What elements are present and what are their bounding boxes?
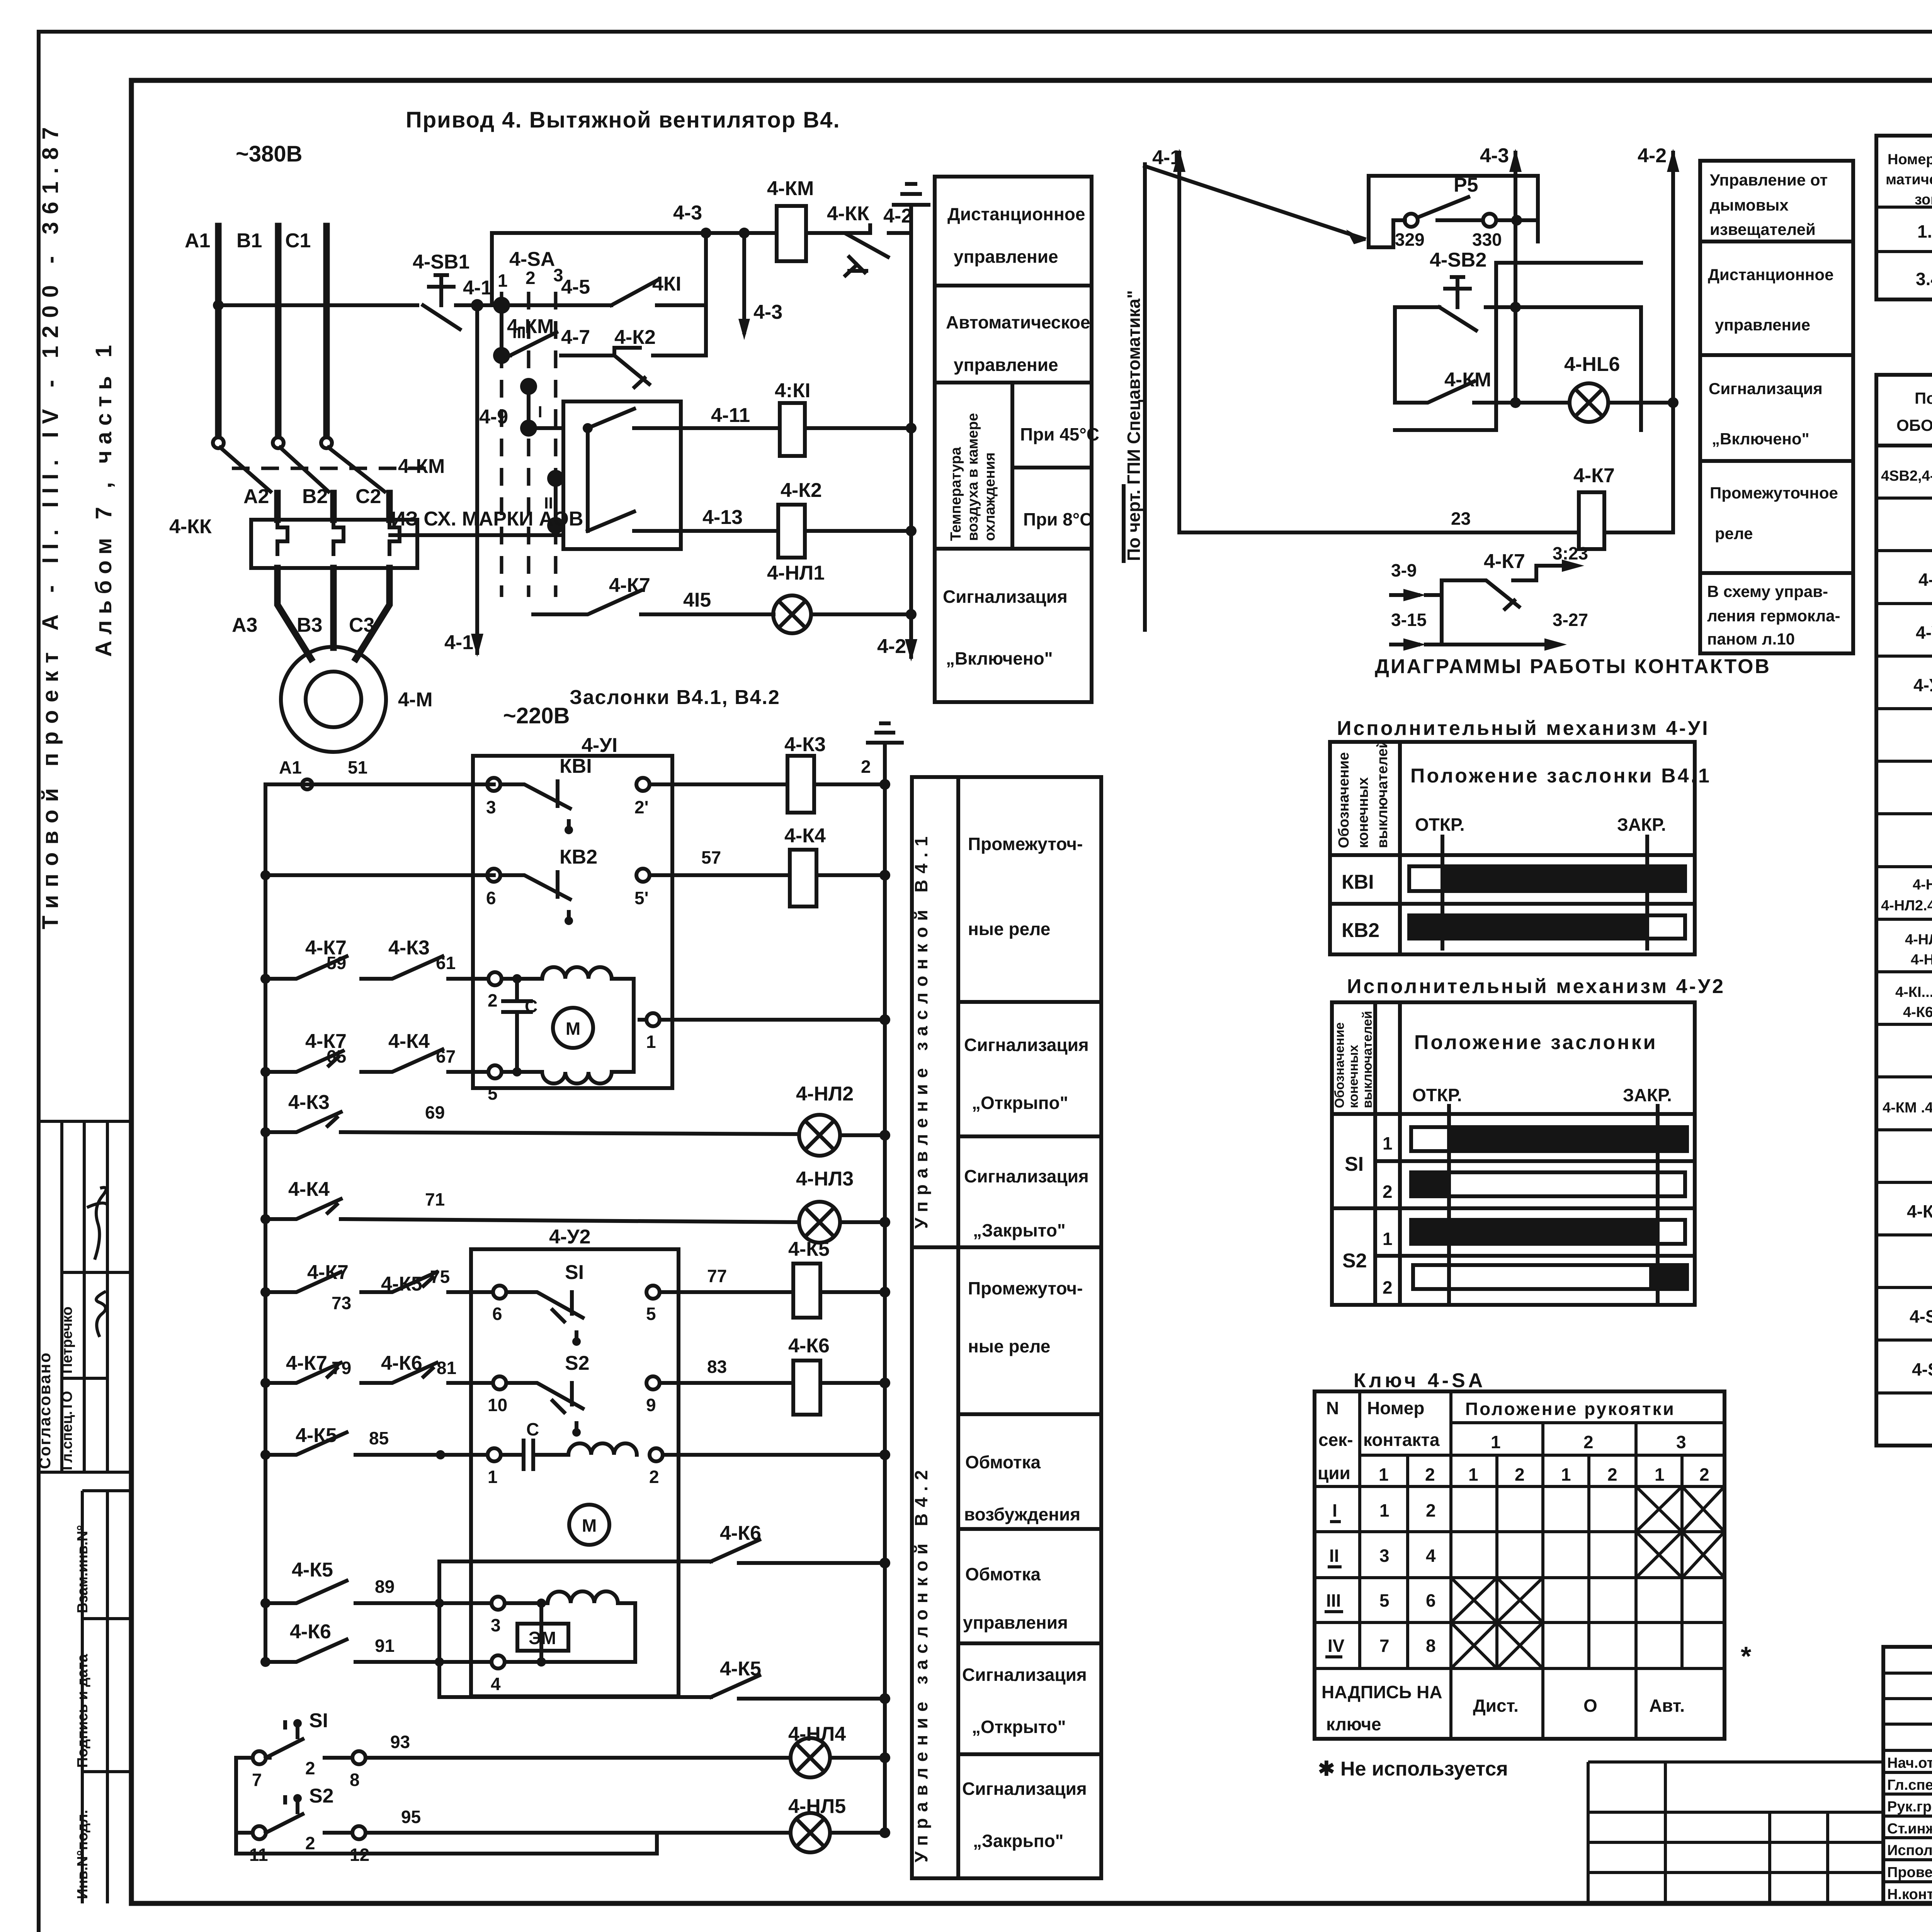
phase C1 wire <box>323 226 330 436</box>
svg-text:4-1: 4-1 <box>444 631 473 654</box>
lamp 4-HL5 <box>791 1813 830 1852</box>
svg-text:*: * <box>1741 1641 1752 1671</box>
svg-text:Положение заслонки: Положение заслонки <box>1414 1031 1658 1054</box>
AOB contact 1 <box>583 423 593 433</box>
svg-text:Сигнализация: Сигнализация <box>1709 379 1823 398</box>
svg-text:А2: А2 <box>243 485 269 508</box>
svg-text:Н.контр.: Н.контр. <box>1887 1886 1932 1903</box>
svg-text:5': 5' <box>634 888 649 908</box>
wire jog up to KM row <box>492 233 777 305</box>
svg-text:КВI: КВI <box>560 755 592 777</box>
svg-text:4-11: 4-11 <box>711 404 750 427</box>
svg-text:Гл.спец.ТО: Гл.спец.ТО <box>59 1391 75 1470</box>
svg-text:Исполнительный механизм 4-У2: Исполнительный механизм 4-У2 <box>1347 975 1725 998</box>
svg-text:67: 67 <box>436 1046 456 1066</box>
wire KK to bus <box>889 231 911 235</box>
row 59-61 <box>260 974 270 984</box>
svg-text:управления: управления <box>963 1612 1068 1633</box>
svg-text:9: 9 <box>646 1395 656 1415</box>
svg-text:Исполн.: Исполн. <box>1887 1842 1932 1859</box>
svg-text:4-Н45: 4-Н45 <box>1911 952 1932 968</box>
svg-text:Взам.инв.N°: Взам.инв.N° <box>75 1525 91 1613</box>
disconnect switch pole C <box>321 437 332 448</box>
svg-text:~380В: ~380В <box>236 141 303 167</box>
X marks row III pos1 <box>1451 1578 1543 1622</box>
svg-text:1: 1 <box>1383 1133 1393 1153</box>
svg-text:4-К4: 4-К4 <box>388 1030 430 1053</box>
svg-text:М: М <box>582 1515 597 1536</box>
svg-text:1: 1 <box>1561 1464 1571 1485</box>
box 4-U2 <box>471 1249 679 1696</box>
svg-text:зоны: зоны <box>1915 192 1932 208</box>
svg-text:выключателей: выключателей <box>1374 739 1391 848</box>
svg-text:3: 3 <box>491 1615 501 1635</box>
svg-text:Исполнительный механизм 4-У: Исполнительный механизм 4-УI <box>1337 717 1710 740</box>
svg-text:4-9: 4-9 <box>479 406 508 428</box>
svg-text:С: С <box>525 996 537 1016</box>
svg-text:В схему управ-: В схему управ- <box>1707 582 1828 600</box>
wire SB1 row <box>218 303 417 307</box>
svg-text:4-КМ .4-КК: 4-КМ .4-КК <box>1883 1100 1932 1116</box>
U1 output to bus <box>632 979 636 1020</box>
svg-text:4-1: 4-1 <box>463 277 492 299</box>
row 4-7 KM contact <box>502 354 510 357</box>
lamp 4-HL1 <box>773 595 811 633</box>
svg-text:4-КК: 4-КК <box>169 515 212 538</box>
KV2 limit switch <box>487 869 500 882</box>
svg-text:Согласовано: Согласовано <box>36 1352 54 1469</box>
svg-text:С: С <box>526 1419 539 1439</box>
svg-text:2: 2 <box>305 1758 315 1778</box>
box 4-U1 <box>473 756 672 1088</box>
svg-text:2: 2 <box>649 1467 659 1487</box>
table Перечень элементов frame <box>1876 375 1932 1446</box>
svg-text:2: 2 <box>1383 1277 1393 1298</box>
svg-text:Провер.: Провер. <box>1887 1864 1932 1881</box>
row 85 capacitor <box>260 1450 270 1460</box>
svg-text:8: 8 <box>1426 1636 1436 1656</box>
svg-text:73: 73 <box>332 1293 351 1313</box>
svg-text:75: 75 <box>430 1267 450 1287</box>
X marks row I pos3 <box>1636 1486 1725 1532</box>
svg-text:„Открыпо": „Открыпо" <box>972 1093 1068 1113</box>
svg-text:4-2: 4-2 <box>883 205 912 227</box>
svg-text:Температура: Температура <box>948 447 964 541</box>
svg-text:ления гермокла-: ления гермокла- <box>1707 607 1840 625</box>
svg-text:4-13: 4-13 <box>702 506 743 529</box>
svg-text:I: I <box>538 403 543 421</box>
svg-text:1: 1 <box>646 1032 656 1052</box>
svg-text:По черт. ГПИ Спецавтоматика": По черт. ГПИ Спецавтоматика" <box>1124 290 1144 561</box>
svg-text:Авт.: Авт. <box>1649 1696 1685 1716</box>
EM winding <box>541 1591 635 1662</box>
П5 contact row <box>1393 220 1405 247</box>
svg-text:НАДПИСЬ НА: НАДПИСЬ НА <box>1321 1682 1442 1702</box>
disconnect switch pole A <box>213 437 224 448</box>
svg-text:Обозначение: Обозначение <box>1336 752 1352 848</box>
svg-text:85: 85 <box>369 1428 389 1448</box>
svg-text:4-НЛ3: 4-НЛ3 <box>796 1168 854 1190</box>
SA contact section III <box>493 297 510 314</box>
svg-text:4:КI: 4:КI <box>775 379 810 402</box>
svg-text:4-НL6: 4-НL6 <box>1564 353 1620 376</box>
svg-text:3-9: 3-9 <box>1391 560 1417 580</box>
svg-text:Рук.гр.: Рук.гр. <box>1887 1799 1932 1815</box>
row 89 EM top <box>260 1598 270 1608</box>
svg-text:I: I <box>1332 1500 1337 1520</box>
svg-text:Обмотка: Обмотка <box>965 1564 1041 1584</box>
svg-text:Сигнализация: Сигнализация <box>964 1035 1089 1055</box>
svg-text:4-КМ: 4-КМ <box>507 315 554 338</box>
svg-text:ОТКР.: ОТКР. <box>1415 815 1465 835</box>
svg-text:возбуждения: возбуждения <box>964 1504 1080 1524</box>
svg-text:Управление заслонкой В4.2: Управление заслонкой В4.2 <box>911 1464 931 1862</box>
SA contact section II <box>547 470 564 487</box>
svg-text:4-НЛ2: 4-НЛ2 <box>796 1083 854 1105</box>
svg-text:выключателей: выключателей <box>1360 1011 1375 1108</box>
svg-text:Промежуточ-: Промежуточ- <box>968 1278 1083 1298</box>
svg-text:2: 2 <box>305 1833 315 1853</box>
coil 4-K1 <box>780 403 805 456</box>
svg-text:4-КМ: 4-КМ <box>767 177 814 200</box>
svg-text:4-К6: 4-К6 <box>290 1621 331 1643</box>
svg-text:4I5: 4I5 <box>683 589 711 611</box>
svg-text:91: 91 <box>375 1636 395 1656</box>
row 91 EM bottom <box>260 1657 270 1667</box>
svg-text:51: 51 <box>348 757 367 777</box>
wire lamp to 4-2 rail <box>1608 401 1673 405</box>
svg-text:Нач.отд.: Нач.отд. <box>1887 1755 1932 1771</box>
svg-text:✱ Не используется: ✱ Не используется <box>1318 1758 1508 1780</box>
svg-text:ные реле: ные реле <box>968 1336 1050 1356</box>
svg-text:5: 5 <box>488 1083 498 1104</box>
row contact 4-K5 to bus <box>439 1695 711 1699</box>
stator winding U1 bottom <box>542 1020 634 1083</box>
S2 switch row 95 <box>236 1831 253 1835</box>
svg-text:Гл.спец.: Гл.спец. <box>1887 1777 1932 1793</box>
svg-text:4-У2: 4-У2 <box>549 1226 591 1248</box>
svg-text:4-К6: 4-К6 <box>1903 1004 1932 1020</box>
svg-text:„Открыто": „Открыто" <box>972 1717 1066 1737</box>
svg-text:О: О <box>1583 1696 1597 1716</box>
table Выбор аппаратов frame <box>1876 136 1932 299</box>
svg-text:4-М: 4-М <box>1918 570 1932 590</box>
svg-text:1: 1 <box>1491 1432 1501 1452</box>
svg-text:Инв.N°подл.: Инв.N°подл. <box>75 1810 91 1899</box>
KV1 limit switch <box>487 778 500 791</box>
svg-text:Сигнализация: Сигнализация <box>962 1665 1087 1685</box>
svg-text:4-К2: 4-К2 <box>781 479 822 502</box>
svg-text:4-КМ: 4-КМ <box>1444 369 1491 391</box>
svg-text:Обмотка: Обмотка <box>965 1452 1041 1472</box>
svg-text:7: 7 <box>1379 1636 1389 1656</box>
svg-text:61: 61 <box>436 953 456 973</box>
label column 1 box <box>935 177 1092 702</box>
svg-text:4-К7: 4-К7 <box>1484 550 1525 573</box>
svg-text:SI: SI <box>565 1261 584 1284</box>
svg-text:S2: S2 <box>1342 1250 1367 1272</box>
svg-text:4-НЛ1: 4-НЛ1 <box>767 562 825 584</box>
disconnect switch pole B <box>273 437 284 448</box>
bar S1-2 <box>1411 1172 1685 1196</box>
row 71 lamp 4-HL3 <box>260 1214 270 1224</box>
svg-text:4-НЛ3,: 4-НЛ3, <box>1905 932 1932 948</box>
svg-text:4-К5: 4-К5 <box>292 1559 333 1581</box>
svg-text:2: 2 <box>1607 1464 1617 1485</box>
svg-text:6: 6 <box>1426 1590 1436 1611</box>
svg-text:3-15: 3-15 <box>1391 610 1427 630</box>
svg-text:2: 2 <box>1426 1500 1436 1520</box>
svg-text:При 45°С: При 45°С <box>1020 424 1099 444</box>
svg-text:7: 7 <box>252 1770 262 1790</box>
svg-text:1: 1 <box>1383 1229 1393 1249</box>
svg-text:Подпись и дата: Подпись и дата <box>75 1654 91 1768</box>
svg-text:Дистанционное: Дистанционное <box>1708 265 1833 284</box>
svg-text:6: 6 <box>486 888 496 908</box>
svg-text:В3: В3 <box>297 614 322 636</box>
svg-text:дымовых: дымовых <box>1710 196 1789 214</box>
svg-text:Управление заслонкой В4.1: Управление заслонкой В4.1 <box>911 830 931 1229</box>
svg-text:управление: управление <box>954 355 1058 375</box>
svg-text:1: 1 <box>498 270 508 291</box>
svg-text:10: 10 <box>488 1395 507 1415</box>
svg-text:ные реле: ные реле <box>968 919 1050 939</box>
row lines <box>1876 497 1932 500</box>
node 4-1 <box>471 299 483 311</box>
svg-text:реле: реле <box>1715 524 1753 543</box>
row 4-9 <box>529 426 563 430</box>
svg-text:Типовой проект А - II. III. I: Типовой проект А - II. III. IV - 1200 - … <box>38 119 63 929</box>
svg-text:КВ2: КВ2 <box>560 846 597 868</box>
AOB link vertical <box>586 428 590 531</box>
bar S2-1 <box>1411 1220 1685 1244</box>
svg-text:4-К5: 4-К5 <box>296 1424 337 1447</box>
svg-text:В2: В2 <box>302 485 328 508</box>
coil 4-K7 <box>1579 492 1604 549</box>
svg-text:4-К4: 4-К4 <box>784 825 826 847</box>
svg-text:2': 2' <box>634 797 649 817</box>
row 4-15 lamp 4-HL1 <box>533 590 641 614</box>
svg-text:71: 71 <box>425 1189 445 1209</box>
svg-text:4SB2,4-HL6: 4SB2,4-HL6 <box>1881 468 1932 484</box>
svg-text:8: 8 <box>350 1770 360 1790</box>
svg-text:57: 57 <box>701 847 721 867</box>
svg-text:ЭМ: ЭМ <box>529 1628 556 1648</box>
svg-text:5: 5 <box>646 1304 656 1324</box>
SA dashed column 2 <box>527 292 531 597</box>
svg-text:М: М <box>566 1019 580 1039</box>
svg-text:4-КК: 4-КК <box>827 202 869 225</box>
break contact 4-KK <box>806 225 888 276</box>
EM solenoid box <box>539 1603 543 1662</box>
phase B2 wire <box>330 493 337 520</box>
vertical link at 1827 <box>704 233 708 355</box>
row 4-5 with contact 4K1 <box>502 303 611 307</box>
inner loop box <box>1515 307 1641 430</box>
wire to node 4-1 <box>456 303 502 307</box>
svg-text:S2: S2 <box>565 1352 590 1374</box>
svg-text:Промежуточное: Промежуточное <box>1710 484 1838 502</box>
row 73-75 S1 77 <box>260 1287 270 1297</box>
svg-text:Ключ 4-SA: Ключ 4-SA <box>1354 1369 1486 1392</box>
phase A2 wire <box>274 493 281 520</box>
svg-text:ЗАКР.: ЗАКР. <box>1623 1085 1672 1105</box>
svg-text:2: 2 <box>488 990 498 1010</box>
X marks row II pos3 <box>1636 1532 1725 1578</box>
phase A3 wire to motor <box>277 568 311 659</box>
svg-text:4-2: 4-2 <box>877 635 906 658</box>
svg-text:~220В: ~220В <box>503 703 570 728</box>
svg-text:4-К5: 4-К5 <box>788 1238 830 1260</box>
key table frame <box>1315 1391 1725 1739</box>
row 65-67 <box>260 1067 270 1077</box>
svg-text:6: 6 <box>492 1304 502 1324</box>
svg-text:управление: управление <box>1715 316 1810 334</box>
svg-text:4-2: 4-2 <box>1638 145 1667 167</box>
ground symbol <box>894 184 929 218</box>
svg-text:IV: IV <box>1328 1636 1345 1656</box>
svg-text:Автоматическое: Автоматическое <box>946 312 1090 332</box>
svg-text:4-К7: 4-К7 <box>609 574 650 597</box>
svg-text:Поз.: Поз. <box>1915 389 1932 407</box>
label column 3 box <box>912 777 1101 1878</box>
svg-text:4-КI...: 4-КI... <box>1895 984 1932 1000</box>
svg-text:4-НЛ2.4-НЛ4: 4-НЛ2.4-НЛ4 <box>1881 898 1932 914</box>
row 69 lamp 4-HL2 <box>260 1127 270 1137</box>
svg-text:Дистанционное: Дистанционное <box>947 204 1085 224</box>
svg-text:извещателей: извещателей <box>1710 220 1816 238</box>
motor M of U2 <box>569 1505 609 1545</box>
row 51 wire <box>265 782 494 786</box>
svg-text:Петречко: Петречко <box>59 1306 75 1374</box>
svg-text:3-27: 3-27 <box>1553 610 1588 630</box>
switch linkage dashed <box>232 467 433 470</box>
svg-text:„Включено": „Включено" <box>946 648 1053 668</box>
svg-text:Альбом 7 , часть 1: Альбом 7 , часть 1 <box>91 339 116 657</box>
diagonal wire to П5 box <box>1145 166 1364 239</box>
ground at bus top <box>868 723 902 753</box>
svg-text:4-3: 4-3 <box>753 301 782 323</box>
svg-text:4-SA: 4-SA <box>509 248 555 270</box>
svg-text:II: II <box>1329 1546 1339 1566</box>
svg-text:ОТКР.: ОТКР. <box>1412 1085 1462 1105</box>
svg-text:Сигнализация: Сигнализация <box>964 1166 1089 1186</box>
svg-text:контакта: контакта <box>1363 1430 1440 1450</box>
label column 2 box <box>1700 161 1853 653</box>
phase B1 wire <box>275 226 282 436</box>
svg-text:4-SB1: 4-SB1 <box>1912 1359 1932 1379</box>
wire SB2 row <box>1395 305 1439 309</box>
diagram box 4-U1 <box>1330 742 1695 954</box>
phase A1 wire <box>215 226 222 436</box>
node on phase A <box>213 300 224 311</box>
svg-text:SI: SI <box>309 1709 328 1732</box>
svg-text:ИЗ СХ. МАРКИ АОВ: ИЗ СХ. МАРКИ АОВ <box>391 508 583 530</box>
svg-text:Положение заслонки В4.1: Положение заслонки В4.1 <box>1410 765 1711 787</box>
svg-text:А1: А1 <box>279 757 302 777</box>
wire to lamp <box>1474 401 1570 405</box>
svg-text:4: 4 <box>1426 1546 1436 1566</box>
bar KV1 <box>1409 866 1685 891</box>
svg-text:ОБОЗН.: ОБОЗН. <box>1896 416 1932 434</box>
svg-text:3: 3 <box>1676 1432 1686 1452</box>
svg-text:Промежуточ-: Промежуточ- <box>968 834 1083 854</box>
thermal elements through box <box>277 520 400 554</box>
svg-text:КВI: КВI <box>1342 871 1374 893</box>
right bus <box>883 753 887 1833</box>
lamp 4-HL6 <box>1570 383 1608 422</box>
svg-text:329: 329 <box>1395 230 1425 250</box>
svg-text:59: 59 <box>327 953 346 973</box>
title block left strip <box>1588 1760 1883 1764</box>
bar KV2 <box>1409 915 1685 939</box>
row 23 with coil 4-K7 <box>1179 531 1579 534</box>
svg-text:Ст.инж.: Ст.инж. <box>1887 1821 1932 1837</box>
svg-text:4-К7: 4-К7 <box>1907 1201 1932 1221</box>
svg-text:69: 69 <box>425 1102 445 1122</box>
capacitor C in U1 <box>503 979 531 1074</box>
svg-text:„Включено": „Включено" <box>1712 430 1810 448</box>
wire stub 4-1 down with arrow <box>475 305 479 653</box>
svg-text:N: N <box>1326 1398 1339 1418</box>
break contact 4-K2 <box>561 348 649 387</box>
svg-text:Положение рукоятки: Положение рукоятки <box>1465 1399 1675 1419</box>
svg-text:95: 95 <box>401 1807 421 1827</box>
svg-text:Заслонки В4.1, В4.2: Заслонки В4.1, В4.2 <box>570 686 780 709</box>
svg-text:Управление от: Управление от <box>1710 171 1828 189</box>
phase C3 wire to motor <box>356 568 389 659</box>
svg-text:1.2: 1.2 <box>1917 221 1932 241</box>
svg-text:4-SB1: 4-SB1 <box>413 251 469 273</box>
phase B3 wire to motor <box>330 568 337 648</box>
bar S1-1 <box>1411 1127 1687 1151</box>
svg-text:ЗАКР.: ЗАКР. <box>1617 815 1666 835</box>
svg-text:сек-: сек- <box>1318 1430 1353 1450</box>
svg-text:4-У2: 4-У2 <box>1913 675 1932 695</box>
AOB contact 2 <box>588 512 681 531</box>
left margin stamp: lower block <box>82 1489 131 1492</box>
svg-text:4КI: 4КI <box>652 273 681 295</box>
svg-text:4-К3: 4-К3 <box>388 937 430 959</box>
svg-text:2: 2 <box>1583 1432 1594 1452</box>
svg-text:SI: SI <box>1345 1153 1364 1175</box>
svg-text:При 8°С: При 8°С <box>1023 509 1092 529</box>
svg-text:23: 23 <box>1451 509 1471 529</box>
svg-text:4-НЛ5: 4-НЛ5 <box>788 1795 846 1818</box>
svg-text:1: 1 <box>488 1467 498 1487</box>
row contact 4-K6 to bus <box>439 1560 711 1563</box>
svg-text:конечных: конечных <box>1346 1045 1361 1108</box>
svg-text:Обозначение: Обозначение <box>1332 1022 1347 1108</box>
svg-text:2: 2 <box>526 268 536 288</box>
svg-text:КВ2: КВ2 <box>1342 919 1379 942</box>
svg-text:С2: С2 <box>355 485 381 508</box>
lamp 4-HL4 <box>791 1738 830 1777</box>
svg-text:4-К3: 4-К3 <box>784 733 826 756</box>
svg-text:Дист.: Дист. <box>1473 1696 1519 1716</box>
svg-text:С1: С1 <box>285 230 311 252</box>
svg-text:2: 2 <box>861 757 871 777</box>
link vertical for EM rows <box>437 1561 441 1697</box>
svg-text:4-НЛ4: 4-НЛ4 <box>788 1723 846 1745</box>
svg-text:S2: S2 <box>309 1785 334 1807</box>
svg-text:охлаждения: охлаждения <box>982 452 998 541</box>
AOB feedback box <box>563 401 681 549</box>
bar S2-2 <box>1413 1265 1687 1289</box>
svg-text:1: 1 <box>1468 1464 1478 1485</box>
wire SB2 left drop <box>1393 307 1397 403</box>
svg-text:65: 65 <box>327 1046 346 1066</box>
